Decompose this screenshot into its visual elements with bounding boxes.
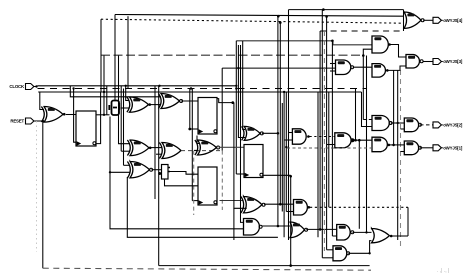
wire U9 out dashed	[181, 150, 222, 152]
wire dash down a	[193, 151, 195, 215]
wire into U24 low	[332, 235, 336, 237]
nand gate U18	[294, 200, 308, 216]
wire U12 out	[262, 132, 278, 134]
wire bottom border dashed	[43, 268, 371, 270]
wire B1 feedback down	[110, 117, 244, 229]
wire clock solid	[38, 85, 237, 87]
nor gate U20	[290, 222, 308, 238]
wire vb5 a	[277, 16, 279, 226]
wire net D2 dashed	[101, 54, 363, 56]
wire into G1 top	[40, 92, 44, 110]
wire U33 to port dashed	[420, 124, 433, 126]
junction dot	[277, 132, 280, 135]
wire clk bus a	[189, 89, 191, 130]
wire U14 out	[262, 225, 291, 227]
wire into U25 low	[322, 257, 333, 259]
wire into U22 a	[330, 63, 336, 65]
nand gate U16	[292, 129, 306, 144]
svg-text:oWYJS[3]: oWYJS[3]	[443, 59, 463, 64]
wire corner x288	[288, 10, 290, 240]
wire U24 out	[353, 231, 372, 233]
nand gate U33	[404, 118, 421, 132]
wire vb6 dash	[323, 31, 325, 251]
wire q1 up	[103, 56, 105, 115]
nand gate U30	[406, 55, 423, 69]
wire CLOCK stub	[34, 86, 38, 88]
wire into U6	[124, 164, 131, 166]
wire net y92	[38, 91, 361, 93]
junction dot	[358, 139, 361, 142]
wire into U33 low	[401, 128, 405, 130]
wire U2 out	[150, 104, 161, 106]
junction dot RESET	[42, 120, 44, 122]
wire bottom long	[159, 265, 370, 267]
wire ff4q down	[290, 176, 292, 265]
dot U28 out	[388, 43, 391, 46]
xnor gate U12	[242, 126, 264, 140]
wire clock dashed	[38, 88, 367, 90]
junction dot	[125, 85, 127, 87]
wire FF1 Q	[96, 114, 110, 116]
wire net A3 top ticked	[101, 19, 404, 23]
junction dot	[72, 87, 74, 89]
wire net y68	[222, 67, 335, 69]
wire net A4 dashed	[320, 30, 403, 32]
input port RESET	[10, 118, 34, 124]
nand gate U22	[336, 60, 354, 75]
junction dot	[237, 67, 239, 69]
wire net y96 corner	[70, 86, 161, 97]
wire corner x115	[114, 15, 116, 101]
wire x128 drop	[127, 16, 129, 88]
nand gate U25	[333, 246, 350, 261]
xnor gate U13	[241, 196, 265, 213]
wire clk bus b	[191, 89, 193, 201]
wire into U16 a	[288, 132, 292, 134]
wire clk into FF3	[192, 200, 198, 202]
wire dash down b	[221, 151, 223, 210]
wire vb5 c	[283, 92, 285, 237]
nand gate U28	[372, 36, 388, 53]
flip-flop U4	[198, 98, 217, 135]
wire into U22 b	[330, 70, 336, 72]
junction dot	[103, 91, 105, 93]
wire faint left	[36, 121, 38, 252]
wire clk into FF1	[74, 89, 76, 143]
wire into U18 low	[286, 211, 293, 213]
flip-flop U8	[244, 145, 263, 178]
wire U5 out	[150, 147, 162, 149]
junction dot	[362, 54, 365, 57]
wire U26 to U30	[388, 66, 406, 70]
wire U20 out	[306, 228, 336, 230]
wire into U2 top	[126, 86, 130, 101]
wire d2 down	[362, 56, 364, 120]
wire net A1 top	[289, 9, 404, 11]
buffer cell U31	[109, 101, 119, 116]
wire clk turn down	[362, 92, 373, 127]
svg-text:CLOCK: CLOCK	[9, 84, 25, 89]
output port oWYJSCIE4	[433, 17, 463, 23]
wire up x408	[407, 207, 409, 236]
wire drop x106	[106, 86, 108, 115]
dot U18 out	[308, 206, 311, 209]
wire reset down left	[42, 121, 44, 268]
dot U27 out	[388, 144, 391, 147]
wire into U12 b	[238, 45, 245, 138]
wire FF2 q	[217, 99, 234, 103]
flip-flop U7	[198, 167, 217, 205]
wire into U5	[121, 150, 130, 152]
junction dot	[289, 175, 292, 178]
wire into U29 dashed	[363, 119, 372, 121]
wire G1 out	[66, 114, 76, 116]
wire x233 tail	[233, 208, 235, 240]
wire into U25 top	[327, 249, 333, 251]
wire net A5	[236, 41, 372, 45]
junction dot	[188, 128, 191, 131]
wire vb6 d	[328, 92, 330, 207]
junction dot	[283, 91, 285, 93]
output port oWYJSCIE3	[433, 59, 463, 65]
wire vb5 b	[279, 23, 281, 205]
wire vb6 e	[331, 41, 333, 236]
junction dot	[103, 114, 105, 116]
junction dot	[354, 139, 357, 142]
wire vb7 e	[366, 56, 368, 233]
output port oWYJSCIE1	[433, 145, 463, 151]
nand gate U27	[372, 137, 387, 152]
wire U10 out	[181, 100, 198, 102]
wire vb6 a	[319, 31, 321, 229]
wire U23 out	[354, 139, 372, 141]
wire vb1 b	[123, 89, 125, 166]
wire U34 to port	[420, 147, 433, 149]
junction dot	[397, 122, 399, 124]
nand gate U24	[337, 225, 354, 241]
junction dot	[190, 87, 192, 89]
wire U30 to port	[423, 61, 433, 63]
nand gate U23	[335, 133, 354, 148]
junction dot	[158, 172, 161, 175]
wire clk into FF2	[190, 128, 198, 130]
wire into U23 b	[327, 144, 335, 146]
wire T1 to port	[423, 19, 433, 21]
xnor gate U6	[127, 161, 152, 178]
wire vb2 b	[158, 86, 160, 266]
junction dot	[325, 15, 328, 18]
wire U6 out	[152, 169, 162, 171]
junction dot	[392, 144, 395, 147]
dot U16 out	[307, 135, 310, 138]
junction dot	[368, 252, 370, 254]
wire U13 out	[264, 203, 294, 205]
wire U16 out ticked	[310, 136, 335, 138]
svg-text:RESET: RESET	[10, 119, 24, 124]
wire vb1 a	[120, 86, 122, 151]
junction dot	[277, 225, 280, 228]
junction dot	[235, 87, 237, 89]
xnor gate U2	[127, 97, 151, 112]
nand gate U14	[244, 219, 263, 236]
wire clk into FF4	[236, 173, 244, 175]
wire B1 out	[121, 107, 130, 109]
wire into U27 dashed	[287, 147, 372, 149]
nand gate U26	[372, 64, 385, 78]
svg-text:oWYJS[2]: oWYJS[2]	[443, 123, 463, 128]
wire into U12 a	[243, 41, 245, 130]
junction dot	[109, 171, 111, 173]
xnor gate U1	[41, 107, 65, 123]
wire U29 out	[391, 122, 405, 124]
wire B2 out	[170, 172, 198, 175]
junction dot CLOCK	[35, 85, 37, 87]
xor gate U9	[159, 143, 181, 159]
output port oWYJSCIE2	[433, 122, 463, 128]
junction dot	[158, 85, 160, 87]
wire vb8 a	[397, 70, 399, 240]
wire into U6 from feedback	[110, 171, 130, 173]
wire U22 out	[353, 66, 372, 68]
junction dot	[331, 40, 334, 43]
wire U28 to U30	[391, 45, 407, 58]
svg-text:oWYJS[4]: oWYJS[4]	[443, 18, 463, 23]
buffer cell U32	[159, 165, 170, 180]
nor gate U21	[404, 12, 424, 29]
wire U25 out	[348, 241, 371, 254]
wire U18 out ticked	[310, 206, 408, 208]
junction dot	[279, 21, 282, 24]
wire FF4 q	[263, 174, 291, 176]
wire into U11 low	[194, 149, 198, 151]
junction dot	[285, 146, 287, 148]
nand gate U34	[404, 141, 421, 155]
dot FF2 q end	[231, 101, 234, 104]
wire RESET	[34, 120, 44, 122]
junction dot	[319, 228, 322, 231]
wire FF3 qn to U13	[220, 200, 244, 202]
svg-text:oWYJS[1]: oWYJS[1]	[443, 146, 463, 151]
or gate U19	[372, 228, 390, 243]
wire vb5 e2	[281, 103, 283, 212]
junction dot	[365, 231, 367, 233]
wire FF1 qn riser	[96, 92, 100, 144]
wire vb6 c	[326, 17, 328, 250]
wire vb2 a	[154, 86, 156, 199]
wire U19 link	[392, 235, 408, 237]
wire B2 low	[165, 179, 199, 186]
page mark	[437, 268, 449, 273]
wire vb5 d	[285, 92, 287, 212]
wire vb7 a	[355, 89, 357, 141]
junction dot	[322, 8, 325, 11]
xnor gate U11	[195, 140, 220, 155]
wire into U11 top	[197, 136, 200, 144]
xnor gate U5	[127, 140, 151, 156]
wire into U34 low	[401, 151, 405, 153]
wire into U28 low	[363, 49, 372, 55]
junction dot	[277, 15, 280, 18]
wire U27 out	[390, 144, 405, 146]
wire into U16 b	[284, 139, 292, 141]
wire vb6 b	[321, 10, 323, 258]
wire U26 down	[393, 70, 395, 144]
wire x222 upper	[221, 68, 223, 151]
dot U19 out	[390, 235, 393, 238]
wire into U5 top	[119, 56, 131, 144]
input port CLOCK	[9, 84, 34, 90]
svg-text:. ,| ., |: . ,| ., |	[437, 268, 449, 273]
dot U26 out	[386, 69, 389, 72]
wire U11 out	[219, 146, 244, 148]
wire clk bus c	[235, 41, 237, 174]
wire net A2 top	[115, 15, 404, 17]
flip-flop U3	[76, 111, 96, 146]
wire T1 input stub	[403, 10, 405, 31]
wire x233 down	[234, 103, 247, 209]
junction dot	[279, 203, 282, 206]
wire corner x101	[100, 19, 102, 92]
junction dot clk end	[235, 85, 237, 87]
dot U23 out	[352, 139, 355, 142]
wire into U14 top	[241, 45, 244, 222]
nand gate U29	[372, 116, 392, 131]
xnor gate U10	[158, 94, 182, 109]
wire into U9 low	[156, 153, 162, 155]
wire vb7 b	[358, 140, 360, 229]
wire mid bottom	[127, 177, 278, 237]
junction dot	[289, 264, 292, 267]
wire vb6 0	[317, 92, 319, 237]
wire vb8 dashed	[400, 70, 402, 250]
